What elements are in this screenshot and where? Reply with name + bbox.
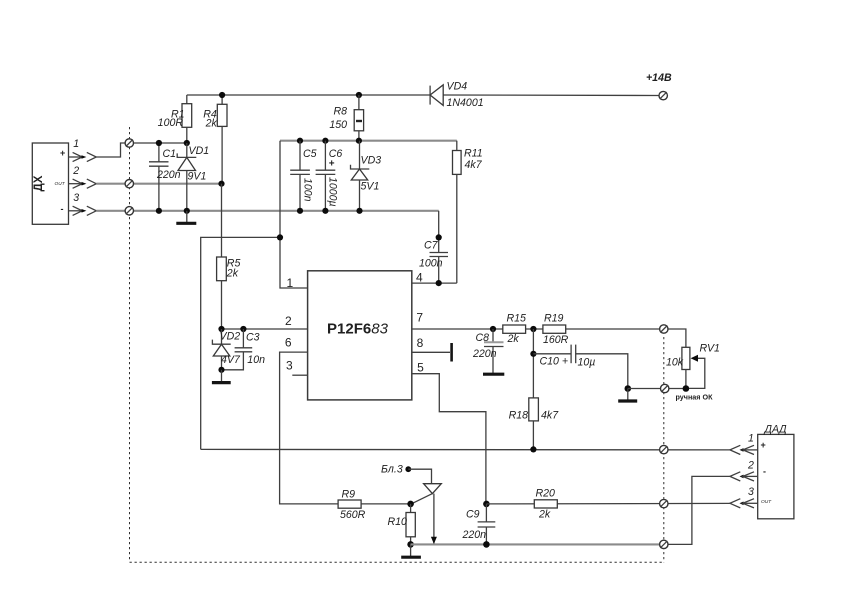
svg-text:1000µ: 1000µ xyxy=(327,177,339,207)
terminal minus line xyxy=(660,540,668,548)
junction C1 bottom xyxy=(156,208,162,214)
svg-text:9V1: 9V1 xyxy=(188,170,207,182)
svg-text:100n: 100n xyxy=(302,178,314,202)
svg-text:VD4: VD4 xyxy=(447,81,468,93)
svg-text:10k: 10k xyxy=(666,356,684,368)
capacitor C9 xyxy=(462,504,496,545)
wire R15 to R19 xyxy=(526,328,543,330)
wire bottom minus rail xyxy=(411,543,664,545)
terminal out line xyxy=(660,499,668,507)
svg-text:OUT: OUT xyxy=(761,499,772,505)
junction C9 top xyxy=(483,501,490,508)
svg-text:-: - xyxy=(61,204,64,214)
transistor Q1 output stage xyxy=(412,484,441,545)
ground below C8 xyxy=(483,373,504,376)
junction 5V feed split xyxy=(277,234,283,240)
svg-text:RV1: RV1 xyxy=(700,343,720,355)
svg-text:-: - xyxy=(763,467,766,477)
svg-text:C10 +: C10 + xyxy=(540,355,569,367)
pin8 terminator bar xyxy=(450,343,453,362)
svg-text:2: 2 xyxy=(285,314,292,328)
op-amp U1 P12F683 xyxy=(308,271,412,400)
junction C6 top xyxy=(322,138,328,144)
junction R15-R19 node xyxy=(530,326,536,332)
wire minus rail to DAD pin2 xyxy=(664,476,730,544)
svg-text:C1: C1 xyxy=(163,148,177,160)
junction C5 top xyxy=(297,138,303,144)
svg-text:ДХ: ДХ xyxy=(33,175,45,191)
resistor R18 xyxy=(509,398,560,450)
junction R8 top xyxy=(356,92,362,98)
junction C10 ground node xyxy=(625,385,632,392)
wire 5V feed to pin1 xyxy=(280,237,308,288)
junction C3 top xyxy=(240,326,246,332)
resistor R8 xyxy=(329,95,363,141)
svg-text:1: 1 xyxy=(748,433,754,445)
wire node down to C10 and R18 xyxy=(532,329,534,398)
svg-text:C5: C5 xyxy=(303,148,317,160)
wire ground rail drop to C7 xyxy=(438,211,440,253)
pin 3 arrow of ДАД xyxy=(730,486,758,508)
svg-text:VD3: VD3 xyxy=(361,154,382,166)
svg-text:8: 8 xyxy=(417,336,424,350)
svg-text:4: 4 xyxy=(416,271,423,285)
connector ДХ xyxy=(32,143,68,224)
svg-text:R8: R8 xyxy=(333,105,347,117)
junction C5 bottom xyxy=(297,208,303,214)
svg-text:5: 5 xyxy=(417,361,424,375)
diode VD4 1N4001 xyxy=(430,81,484,109)
svg-text:+: + xyxy=(329,159,335,170)
svg-text:7: 7 xyxy=(416,311,423,325)
ground below C10 node xyxy=(618,389,637,402)
svg-text:10µ: 10µ xyxy=(578,357,596,369)
junction VD1 top xyxy=(184,140,190,146)
junction C10 left node xyxy=(530,351,536,357)
wire dashed boundary right vertical xyxy=(663,337,665,562)
resistor R4 xyxy=(203,95,227,184)
node Бл.3 xyxy=(405,466,411,472)
svg-text:10n: 10n xyxy=(247,354,265,366)
junction VD2 anode xyxy=(218,367,224,373)
svg-text:2k: 2k xyxy=(205,118,218,130)
wire pin4 line xyxy=(412,282,457,284)
capacitor C5 xyxy=(290,141,316,211)
svg-text:560R: 560R xyxy=(340,509,366,521)
svg-text:+14В: +14В xyxy=(646,72,672,84)
pin 1 arrow of ДХ xyxy=(69,138,97,162)
svg-text:2k: 2k xyxy=(507,333,520,345)
svg-text:C3: C3 xyxy=(246,331,260,343)
junction R8 bottom xyxy=(356,138,362,144)
wire dashed boundary left vertical xyxy=(129,127,131,562)
capacitor C6 electrolytic xyxy=(316,141,343,211)
pin 1 arrow of ДАД xyxy=(730,433,758,455)
wire pin6 line down to R9 xyxy=(280,352,339,504)
junction R9-R10-transistor xyxy=(407,501,414,508)
svg-text:5V1: 5V1 xyxy=(361,181,380,193)
svg-text:1: 1 xyxy=(73,138,79,150)
svg-text:+: + xyxy=(761,440,766,450)
svg-text:ручная ОК: ручная ОК xyxy=(676,392,714,401)
wire ДХ pin2 OUT line xyxy=(96,183,221,185)
svg-text:6: 6 xyxy=(285,336,292,350)
wire ДХ pin3 ground rail xyxy=(96,210,438,212)
svg-text:OUT: OUT xyxy=(55,181,66,187)
svg-text:R10: R10 xyxy=(388,516,408,528)
resistor R9 xyxy=(338,488,411,520)
wire Бл.3 to transistor xyxy=(408,469,431,484)
resistor R15 xyxy=(503,313,526,346)
svg-text:C9: C9 xyxy=(466,509,480,521)
svg-text:R9: R9 xyxy=(342,488,356,500)
svg-text:160R: 160R xyxy=(543,334,569,346)
wire DAD plus line xyxy=(201,448,730,451)
svg-text:220n: 220n xyxy=(156,169,181,181)
junction RV1 bottom xyxy=(683,385,690,392)
svg-text:100n: 100n xyxy=(419,257,443,269)
wire pin8 stub xyxy=(412,351,450,353)
wire ДХ pin1 to node VD1 top xyxy=(96,143,187,157)
wire pin5 line xyxy=(412,374,486,504)
terminal ДХ pin3 xyxy=(125,207,133,215)
wire +14V top rail xyxy=(187,94,659,97)
junction R4 top xyxy=(219,92,225,98)
pin 2 arrow of ДХ xyxy=(69,165,97,188)
potentiometer RV1 xyxy=(666,343,720,389)
wire C10 node to RV1 bottom xyxy=(628,388,686,390)
junction C8 top xyxy=(490,326,496,332)
wire OUT line to terminal xyxy=(486,502,730,505)
resistor R10 xyxy=(388,504,416,545)
svg-text:C8: C8 xyxy=(476,332,490,344)
pin 3 arrow of ДХ xyxy=(69,192,97,215)
svg-text:3: 3 xyxy=(73,192,79,204)
svg-text:220n: 220n xyxy=(462,529,487,541)
svg-text:150: 150 xyxy=(329,119,347,131)
svg-text:4k7: 4k7 xyxy=(465,159,483,171)
wire R19 to RV1 top xyxy=(566,329,686,347)
junction C1 top xyxy=(156,140,162,146)
svg-text:R15: R15 xyxy=(507,313,527,325)
svg-text:2: 2 xyxy=(747,459,754,471)
junction R18 bottom xyxy=(530,446,536,452)
svg-text:3: 3 xyxy=(748,486,754,498)
svg-text:R18: R18 xyxy=(509,410,529,422)
svg-text:1: 1 xyxy=(286,276,293,290)
terminal ручная ОК xyxy=(661,384,669,392)
terminal ДХ pin2 xyxy=(125,180,133,188)
svg-text:100R: 100R xyxy=(158,117,184,129)
junction R4 bottom OUT line xyxy=(218,181,224,187)
svg-text:2k: 2k xyxy=(538,509,551,521)
resistor R1 xyxy=(158,95,192,143)
zener diode VD2 xyxy=(212,329,241,370)
svg-text:Бл.3: Бл.3 xyxy=(381,463,403,475)
junction VD2 top xyxy=(218,326,224,332)
svg-text:R20: R20 xyxy=(536,488,556,500)
svg-text:VD1: VD1 xyxy=(189,145,210,157)
svg-text:P12F683: P12F683 xyxy=(327,321,389,338)
wire 5V rail xyxy=(280,140,457,142)
svg-text:C7: C7 xyxy=(424,240,439,252)
svg-text:VD2: VD2 xyxy=(220,331,241,343)
svg-text:3: 3 xyxy=(286,359,293,373)
ground below R10 xyxy=(401,544,421,557)
ground below VD1 xyxy=(176,211,196,224)
wire pin2 line xyxy=(222,328,308,330)
terminal R19 out xyxy=(660,325,668,333)
junction C7 bottom pin4 xyxy=(436,280,442,286)
capacitor C7 xyxy=(419,240,448,284)
wire pin7 line xyxy=(412,328,503,330)
wire pin3 stub xyxy=(292,374,307,376)
resistor R19 xyxy=(543,313,569,346)
capacitor C10 electrolytic xyxy=(533,345,627,389)
resistor R20 xyxy=(534,488,557,521)
svg-text:4V7: 4V7 xyxy=(221,354,241,366)
capacitor C1 xyxy=(149,143,181,211)
svg-text:+: + xyxy=(60,148,65,158)
connector ДАД xyxy=(758,424,794,519)
junction VD3 bottom xyxy=(356,208,362,214)
junction R10 bottom xyxy=(407,541,414,548)
zener diode VD1 xyxy=(177,143,209,211)
terminal plus line xyxy=(660,445,668,453)
wire R4-R5 column xyxy=(221,184,223,257)
svg-text:ДАД: ДАД xyxy=(764,424,788,436)
resistor R11 xyxy=(453,141,483,283)
svg-text:1N4001: 1N4001 xyxy=(447,97,484,109)
svg-text:2k: 2k xyxy=(226,268,239,280)
svg-text:R19: R19 xyxy=(544,313,564,325)
svg-text:220n: 220n xyxy=(472,348,497,360)
capacitor C8 xyxy=(472,329,504,374)
terminal ДХ pin1 xyxy=(125,139,133,147)
zener diode VD3 xyxy=(351,141,382,211)
junction on C7 wire xyxy=(436,234,442,240)
wire dashed boundary bottom horizontal xyxy=(130,561,664,563)
svg-text:4k7: 4k7 xyxy=(541,410,559,422)
ground below VD2 xyxy=(212,370,231,383)
wire 5V feed down-left xyxy=(201,141,280,450)
capacitor C3 xyxy=(222,329,266,370)
junction C6 bottom xyxy=(322,208,328,214)
svg-text:2: 2 xyxy=(72,165,79,177)
terminal +14V xyxy=(659,91,667,99)
junction VD1 bottom xyxy=(184,208,190,214)
resistor R5 xyxy=(217,257,241,329)
junction C9 bottom xyxy=(483,541,490,548)
pin 2 arrow of ДАД xyxy=(730,459,758,481)
